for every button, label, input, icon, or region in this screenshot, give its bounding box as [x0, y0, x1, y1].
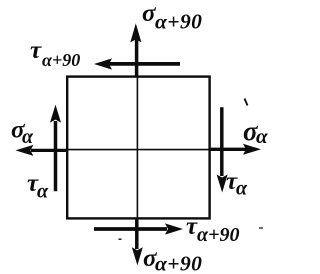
label sigma alpha+90 bottom	[143, 245, 202, 274]
arrow tau alpha+90 top (left)	[94, 58, 180, 69]
svg-text:α+90: α+90	[155, 10, 202, 34]
arrow sigma alpha+90 bottom (down)	[132, 218, 143, 266]
stray dash bottom right	[259, 227, 263, 229]
label sigma alpha left	[11, 117, 34, 149]
label sigma alpha+90 top	[142, 0, 202, 34]
svg-text:α: α	[22, 126, 34, 148]
stray tick mark near right sigma label	[245, 99, 248, 106]
svg-text:α+90: α+90	[155, 252, 202, 274]
svg-text:α: α	[37, 181, 49, 203]
label sigma alpha right	[243, 116, 268, 148]
arrow sigma alpha+90 top (up)	[130, 23, 141, 77]
arrow sigma alpha right (right)	[209, 144, 261, 155]
stray dot below bottom edge	[119, 238, 122, 240]
label tau alpha+90 top	[30, 37, 80, 70]
label tau alpha right	[226, 168, 248, 200]
arrow tau alpha right (down)	[217, 107, 228, 192]
svg-text:τ: τ	[30, 37, 42, 64]
horizontal centerline	[67, 149, 210, 151]
label tau alpha+90 bottom	[186, 213, 239, 246]
svg-text:α: α	[236, 178, 248, 200]
svg-text:α+90: α+90	[197, 224, 239, 246]
vertical centerline	[136, 77, 138, 219]
arrow tau alpha left (up)	[50, 105, 61, 192]
arrow tau alpha+90 bottom (right)	[94, 223, 183, 234]
svg-text:α: α	[256, 124, 268, 148]
arrow sigma alpha left (left)	[15, 145, 67, 156]
label tau alpha left	[27, 170, 49, 203]
square stress element outline	[67, 77, 209, 219]
svg-text:α+90: α+90	[42, 50, 80, 70]
